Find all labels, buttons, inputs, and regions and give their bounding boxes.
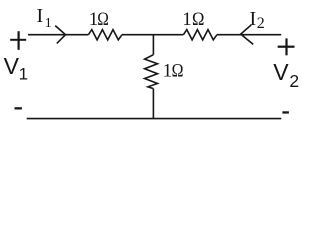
plus sign port 2	[278, 38, 295, 55]
wire top-middle segment	[122, 34, 183, 36]
svg-text:1: 1	[163, 61, 173, 82]
svg-text:V: V	[4, 53, 20, 79]
plus sign port 1	[10, 31, 26, 50]
wire vertical top lead	[152, 35, 154, 55]
resistor R2 (1 ohm, top right zigzag)	[183, 30, 217, 40]
wire bottom	[27, 118, 282, 120]
minus sign port 2	[282, 111, 289, 113]
svg-text:I: I	[250, 8, 257, 30]
minus sign port 1	[15, 107, 22, 109]
svg-text:1: 1	[19, 64, 28, 83]
svg-text:1: 1	[45, 16, 52, 31]
wire top-right segment	[217, 34, 281, 36]
arrow I2 (current into port 2, pointing left)	[241, 25, 254, 45]
arrow I1 (current into port 1, pointing right)	[55, 26, 65, 44]
wire top-left segment	[28, 34, 88, 36]
svg-text:1: 1	[182, 9, 192, 30]
svg-text:V: V	[273, 59, 289, 85]
svg-text:I: I	[37, 5, 44, 27]
resistor R1 (1 ohm, top left zigzag)	[88, 30, 122, 40]
svg-text:Ω: Ω	[192, 8, 204, 29]
wire vertical bottom lead	[152, 89, 154, 119]
svg-text:Ω: Ω	[172, 59, 184, 81]
svg-text:Ω: Ω	[97, 9, 109, 30]
svg-text:2: 2	[257, 15, 265, 32]
svg-text:2: 2	[289, 71, 299, 91]
resistor R3 (1 ohm, vertical zigzag)	[145, 55, 158, 89]
